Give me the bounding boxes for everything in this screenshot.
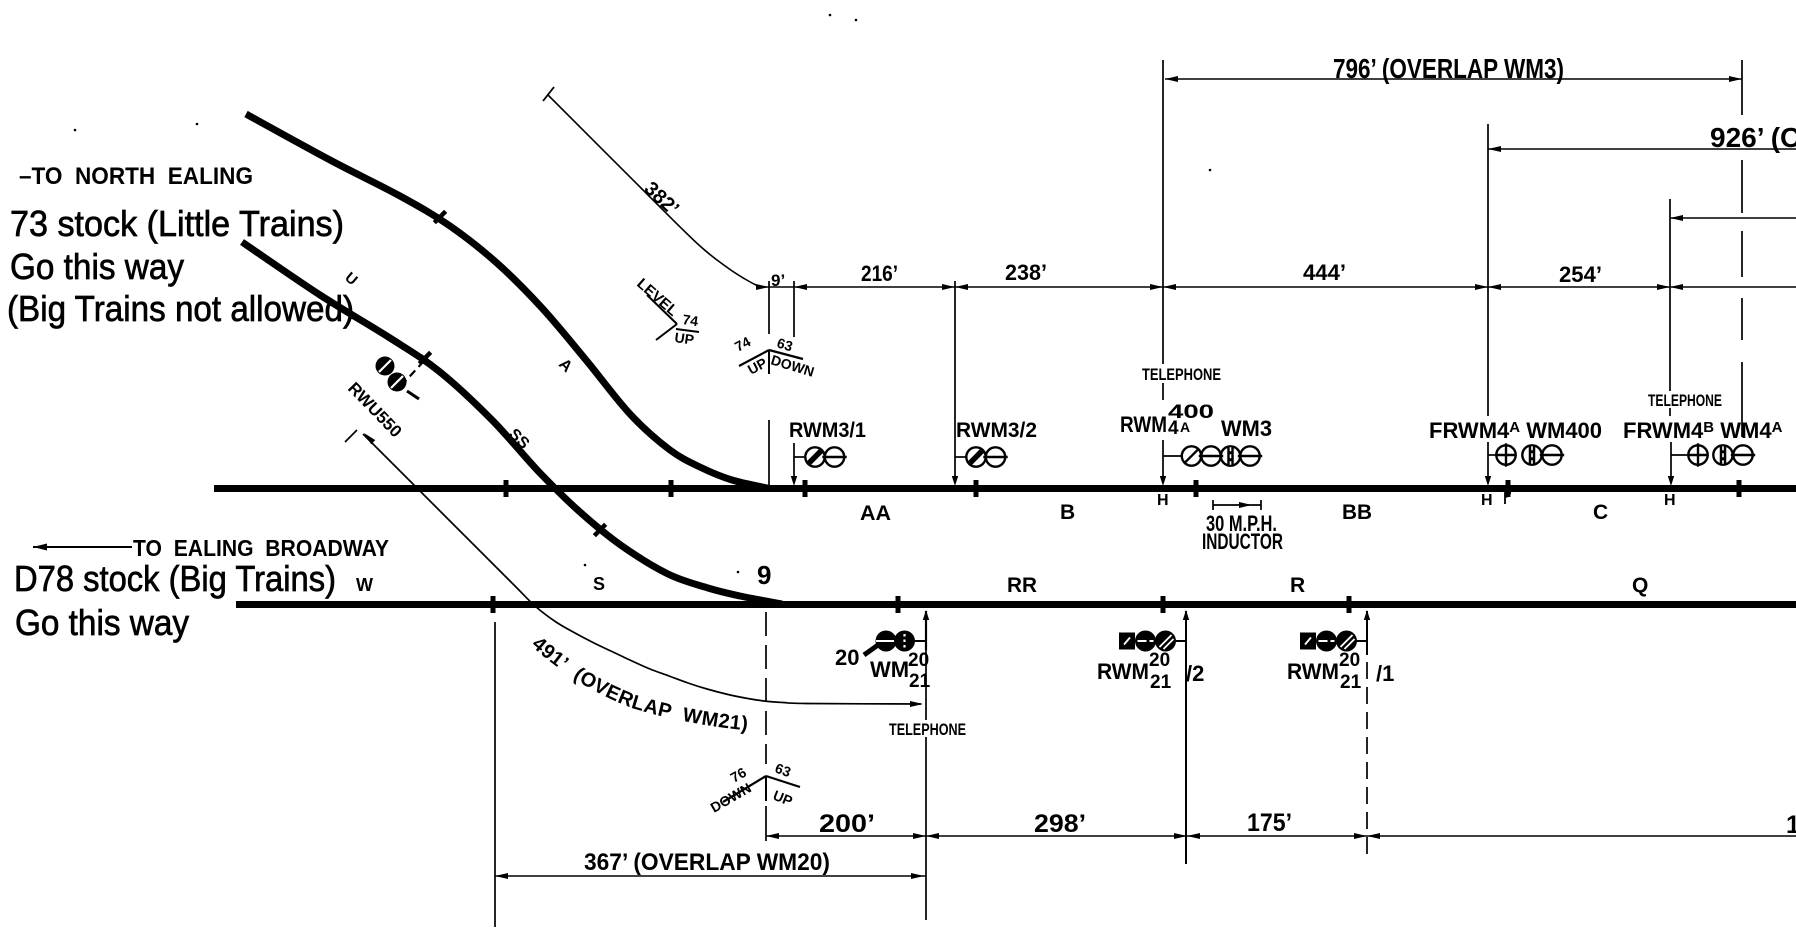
svg-text:RWM: RWM <box>1287 659 1339 684</box>
svg-text:FRWM4A WM400: FRWM4A WM400 <box>1429 418 1602 443</box>
svg-text:FRWM4B WM4A: FRWM4B WM4A <box>1623 418 1783 443</box>
svg-text:74: 74 <box>732 333 753 355</box>
svg-text:20: 20 <box>835 645 859 670</box>
svg-text:926’ (O: 926’ (O <box>1710 122 1796 153</box>
svg-text:444’: 444’ <box>1303 260 1346 285</box>
svg-text:Go this way: Go this way <box>15 602 189 643</box>
svg-text:/1: /1 <box>1376 661 1394 686</box>
svg-text:U: U <box>341 269 360 289</box>
svg-text:W: W <box>356 575 373 595</box>
svg-text:WM3: WM3 <box>1221 416 1272 441</box>
svg-text:382’: 382’ <box>640 178 683 221</box>
svg-text:9: 9 <box>757 560 771 590</box>
svg-text:H: H <box>1664 492 1676 509</box>
svg-text:DOWN: DOWN <box>708 780 754 816</box>
svg-text:–TO NORTH EALING: –TO NORTH EALING <box>19 163 253 190</box>
svg-text:175’: 175’ <box>1247 809 1292 837</box>
svg-text:H: H <box>1157 492 1169 509</box>
svg-text:R: R <box>1290 574 1305 597</box>
svg-text:298’: 298’ <box>1034 810 1086 838</box>
svg-text:63: 63 <box>773 760 793 780</box>
svg-text:/2: /2 <box>1186 661 1204 686</box>
svg-text:UP: UP <box>745 354 770 377</box>
svg-text:RR: RR <box>1007 574 1037 597</box>
svg-text:RWM: RWM <box>1120 412 1167 437</box>
svg-text:RWM: RWM <box>1097 659 1149 684</box>
svg-text:UP: UP <box>674 329 695 348</box>
svg-text:RWM3/2: RWM3/2 <box>956 419 1037 442</box>
svg-text:TELEPHONE: TELEPHONE <box>889 720 966 739</box>
svg-text:20: 20 <box>908 650 929 671</box>
svg-text:TELEPHONE: TELEPHONE <box>1648 391 1722 410</box>
svg-text:491’ (OVERLAP WM21): 491’ (OVERLAP WM21) <box>528 633 750 736</box>
svg-text:D78 stock (Big Trains): D78 stock (Big Trains) <box>14 558 336 599</box>
svg-text:21: 21 <box>1340 672 1362 693</box>
svg-text:21: 21 <box>909 671 931 692</box>
svg-text:21: 21 <box>1150 672 1172 693</box>
svg-text:BB: BB <box>1342 501 1372 524</box>
svg-text:Q: Q <box>1632 574 1648 597</box>
svg-text:20: 20 <box>1339 650 1360 671</box>
svg-text:A: A <box>555 356 575 377</box>
svg-text:216’: 216’ <box>861 261 898 286</box>
svg-text:20: 20 <box>1149 650 1170 671</box>
svg-text:UP: UP <box>771 787 795 809</box>
svg-text:254’: 254’ <box>1559 262 1602 287</box>
svg-text:C: C <box>1593 501 1608 524</box>
svg-text:(Big Trains not allowed): (Big Trains not allowed) <box>7 288 354 329</box>
svg-text:796’ (OVERLAP WM3): 796’ (OVERLAP WM3) <box>1333 53 1564 84</box>
svg-text:H: H <box>1481 492 1493 509</box>
svg-text:S: S <box>593 574 605 594</box>
svg-text:TELEPHONE: TELEPHONE <box>1142 365 1221 384</box>
svg-text:B: B <box>1060 501 1075 524</box>
svg-text:1: 1 <box>1786 811 1796 839</box>
svg-text:RWM3/1: RWM3/1 <box>789 419 866 442</box>
svg-text:TO EALING BROADWAY: TO EALING BROADWAY <box>133 535 389 561</box>
svg-text:SS: SS <box>505 426 532 453</box>
svg-text:AA: AA <box>860 502 891 525</box>
svg-text:INDUCTOR: INDUCTOR <box>1202 529 1283 554</box>
svg-text:238’: 238’ <box>1005 260 1047 285</box>
svg-text:A: A <box>1180 419 1190 435</box>
svg-text:LEVEL: LEVEL <box>633 275 681 320</box>
svg-text:Go this way: Go this way <box>10 246 184 287</box>
svg-text:4: 4 <box>1168 418 1179 439</box>
svg-text:200’: 200’ <box>819 810 875 838</box>
svg-text:73 stock (Little Trains): 73 stock (Little Trains) <box>10 203 344 244</box>
svg-text:9’: 9’ <box>771 271 785 290</box>
svg-text:WM: WM <box>870 657 909 682</box>
svg-text:367’ (OVERLAP WM20): 367’ (OVERLAP WM20) <box>584 849 830 876</box>
svg-text:74: 74 <box>682 311 700 329</box>
